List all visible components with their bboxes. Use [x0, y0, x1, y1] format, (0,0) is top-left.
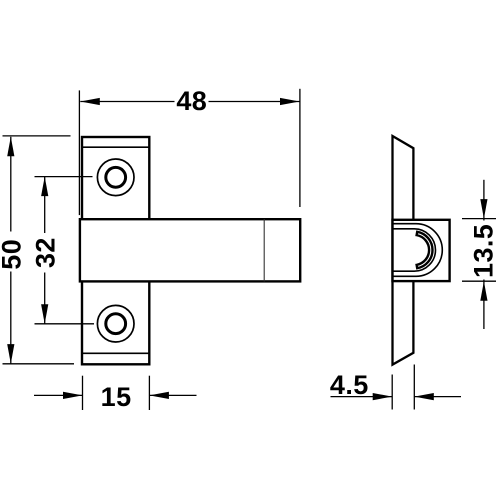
svg-text:13.5: 13.5	[469, 224, 499, 278]
dimension 13.5 label	[469, 224, 499, 278]
catch spring clip band	[417, 232, 433, 268]
screw hole top outer circle	[97, 159, 134, 196]
dimension 48 line right segment	[209, 101, 300, 103]
dimension 48 right arrowhead	[280, 98, 300, 105]
catch middle spring curve	[393, 229, 436, 271]
dimension 15 right extension line	[148, 376, 150, 410]
svg-text:15: 15	[101, 382, 132, 412]
dimension 48 right extension line	[299, 89, 301, 207]
mounting plate outline (front view)	[82, 137, 149, 364]
dimension 13.5 top arrow line	[483, 180, 485, 221]
dimension 50 line lower segment	[10, 272, 12, 364]
dimension 32 down arrowhead	[41, 304, 48, 324]
dimension 4.5 left extension line	[391, 375, 393, 410]
dimension 48 line left segment	[80, 101, 174, 103]
dimension 48 left arrowhead	[80, 98, 100, 105]
dimension 15 left arrowhead	[63, 392, 83, 399]
dimension 50 up arrowhead	[7, 137, 14, 157]
dimension 13.5 down arrowhead	[480, 199, 487, 219]
dimension 32 line lower segment	[44, 273, 46, 324]
dimension 15 right arrowhead	[149, 392, 169, 399]
dimension 15 left extension line	[82, 376, 84, 410]
dimension 32 top extension line	[35, 176, 93, 178]
dimension 32 label	[30, 237, 60, 268]
bar inner edge line	[263, 219, 265, 281]
dimension 13.5 top extension tick	[462, 218, 496, 220]
plate top flange line	[82, 146, 149, 148]
dimension 15 left arrow line	[34, 394, 83, 396]
catch outer spring curve	[393, 224, 443, 277]
dimension 4.5 left arrow line	[331, 396, 393, 398]
dimension 32 up arrowhead	[41, 177, 48, 197]
dimension 15 right arrow line	[149, 394, 196, 396]
dimension 50 bottom extension line	[3, 363, 75, 365]
dimension 48 left extension line	[78, 90, 80, 215]
dimension 13.5 up arrowhead	[480, 281, 487, 301]
dimension 4.5 left arrowhead	[373, 393, 393, 400]
dimension 4.5 right extension line	[413, 365, 415, 410]
screw hole bottom inner ring	[106, 314, 126, 334]
dimension 50 top extension line	[3, 135, 71, 137]
dimension 32 bottom extension line	[35, 323, 95, 325]
dimension 13.5 bottom extension tick	[462, 280, 496, 282]
dimension 13.5 bottom arrow line	[483, 280, 485, 330]
dimension 32 line upper segment	[44, 177, 46, 233]
svg-text:50: 50	[0, 239, 27, 270]
dimension 50 line upper segment	[10, 137, 12, 232]
screw hole top inner ring	[106, 167, 126, 187]
svg-text:48: 48	[176, 86, 207, 116]
screw hole bottom outer circle	[97, 305, 134, 342]
dimension 4.5 right arrow line	[414, 396, 461, 398]
dimension 50 down arrowhead	[7, 344, 14, 364]
dimension 4.5 right arrowhead	[414, 393, 434, 400]
svg-text:4.5: 4.5	[330, 370, 369, 400]
dimension 50 label	[0, 239, 27, 270]
side view plate strip	[393, 136, 414, 365]
plate bottom flange line	[82, 352, 149, 354]
svg-text:32: 32	[30, 237, 60, 268]
side view catch block	[393, 220, 450, 281]
latch tongue bar (front view)	[80, 219, 300, 281]
